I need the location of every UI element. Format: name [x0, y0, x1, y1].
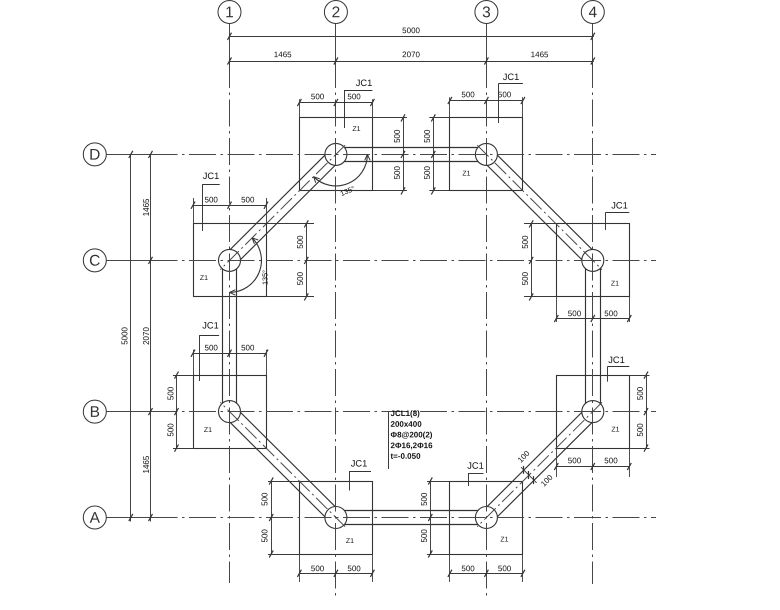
svg-text:1465: 1465 — [274, 50, 292, 59]
svg-text:JC1: JC1 — [611, 200, 628, 210]
svg-text:5000: 5000 — [121, 326, 130, 344]
svg-text:1: 1 — [225, 4, 234, 21]
svg-text:D: D — [89, 147, 100, 164]
svg-text:1465: 1465 — [142, 198, 151, 216]
svg-text:1465: 1465 — [142, 455, 151, 473]
svg-text:2: 2 — [332, 4, 341, 21]
svg-text:500: 500 — [347, 564, 361, 573]
svg-text:500: 500 — [296, 271, 305, 285]
svg-text:500: 500 — [636, 386, 645, 400]
svg-text:B: B — [90, 404, 100, 421]
svg-text:A: A — [90, 510, 101, 527]
svg-text:135°: 135° — [260, 270, 269, 285]
svg-text:500: 500 — [241, 343, 255, 352]
svg-text:500: 500 — [461, 90, 475, 99]
svg-text:500: 500 — [296, 235, 305, 249]
svg-text:Z1: Z1 — [611, 426, 619, 433]
svg-text:JC1: JC1 — [503, 72, 520, 82]
svg-text:500: 500 — [311, 564, 325, 573]
svg-text:Φ8@200(2): Φ8@200(2) — [390, 430, 432, 439]
svg-text:500: 500 — [498, 564, 512, 573]
svg-text:500: 500 — [167, 423, 176, 437]
svg-text:500: 500 — [604, 456, 618, 465]
svg-text:2Φ16,2Φ16: 2Φ16,2Φ16 — [390, 441, 433, 450]
svg-text:JC1: JC1 — [356, 78, 373, 88]
svg-text:2070: 2070 — [402, 50, 420, 59]
svg-text:Z1: Z1 — [200, 275, 208, 282]
svg-text:t=-0.050: t=-0.050 — [390, 452, 421, 461]
svg-text:500: 500 — [498, 90, 512, 99]
svg-text:500: 500 — [568, 456, 582, 465]
svg-text:500: 500 — [393, 129, 402, 143]
svg-text:Z1: Z1 — [352, 126, 360, 133]
svg-text:2070: 2070 — [142, 327, 151, 345]
svg-text:500: 500 — [423, 129, 432, 143]
svg-text:500: 500 — [261, 529, 270, 543]
svg-text:Z1: Z1 — [462, 170, 470, 177]
svg-text:JC1: JC1 — [608, 355, 625, 365]
svg-text:Z1: Z1 — [346, 538, 354, 545]
svg-text:500: 500 — [420, 492, 429, 506]
svg-text:500: 500 — [167, 386, 176, 400]
svg-text:Z1: Z1 — [611, 280, 619, 287]
svg-text:500: 500 — [241, 195, 255, 204]
svg-text:500: 500 — [311, 92, 325, 101]
svg-text:Z1: Z1 — [500, 536, 508, 543]
svg-text:500: 500 — [521, 271, 530, 285]
svg-text:500: 500 — [521, 235, 530, 249]
svg-text:500: 500 — [205, 195, 219, 204]
svg-text:JC1: JC1 — [467, 461, 484, 471]
svg-text:C: C — [89, 253, 100, 270]
svg-text:500: 500 — [636, 423, 645, 437]
svg-text:500: 500 — [347, 92, 361, 101]
svg-text:500: 500 — [461, 564, 475, 573]
svg-text:JC1: JC1 — [351, 458, 368, 468]
svg-text:4: 4 — [588, 4, 597, 21]
svg-text:JCL1(8): JCL1(8) — [390, 409, 420, 418]
svg-text:500: 500 — [261, 492, 270, 506]
svg-text:Z1: Z1 — [204, 427, 212, 434]
svg-text:500: 500 — [393, 165, 402, 179]
svg-text:JC1: JC1 — [203, 171, 220, 181]
svg-text:1465: 1465 — [531, 50, 549, 59]
svg-text:500: 500 — [604, 309, 618, 318]
svg-text:500: 500 — [420, 529, 429, 543]
svg-text:500: 500 — [205, 343, 219, 352]
svg-text:3: 3 — [482, 4, 491, 21]
svg-text:5000: 5000 — [402, 26, 420, 35]
svg-text:200x400: 200x400 — [390, 420, 422, 429]
svg-text:JC1: JC1 — [202, 320, 219, 330]
svg-text:500: 500 — [423, 165, 432, 179]
svg-text:500: 500 — [568, 309, 582, 318]
